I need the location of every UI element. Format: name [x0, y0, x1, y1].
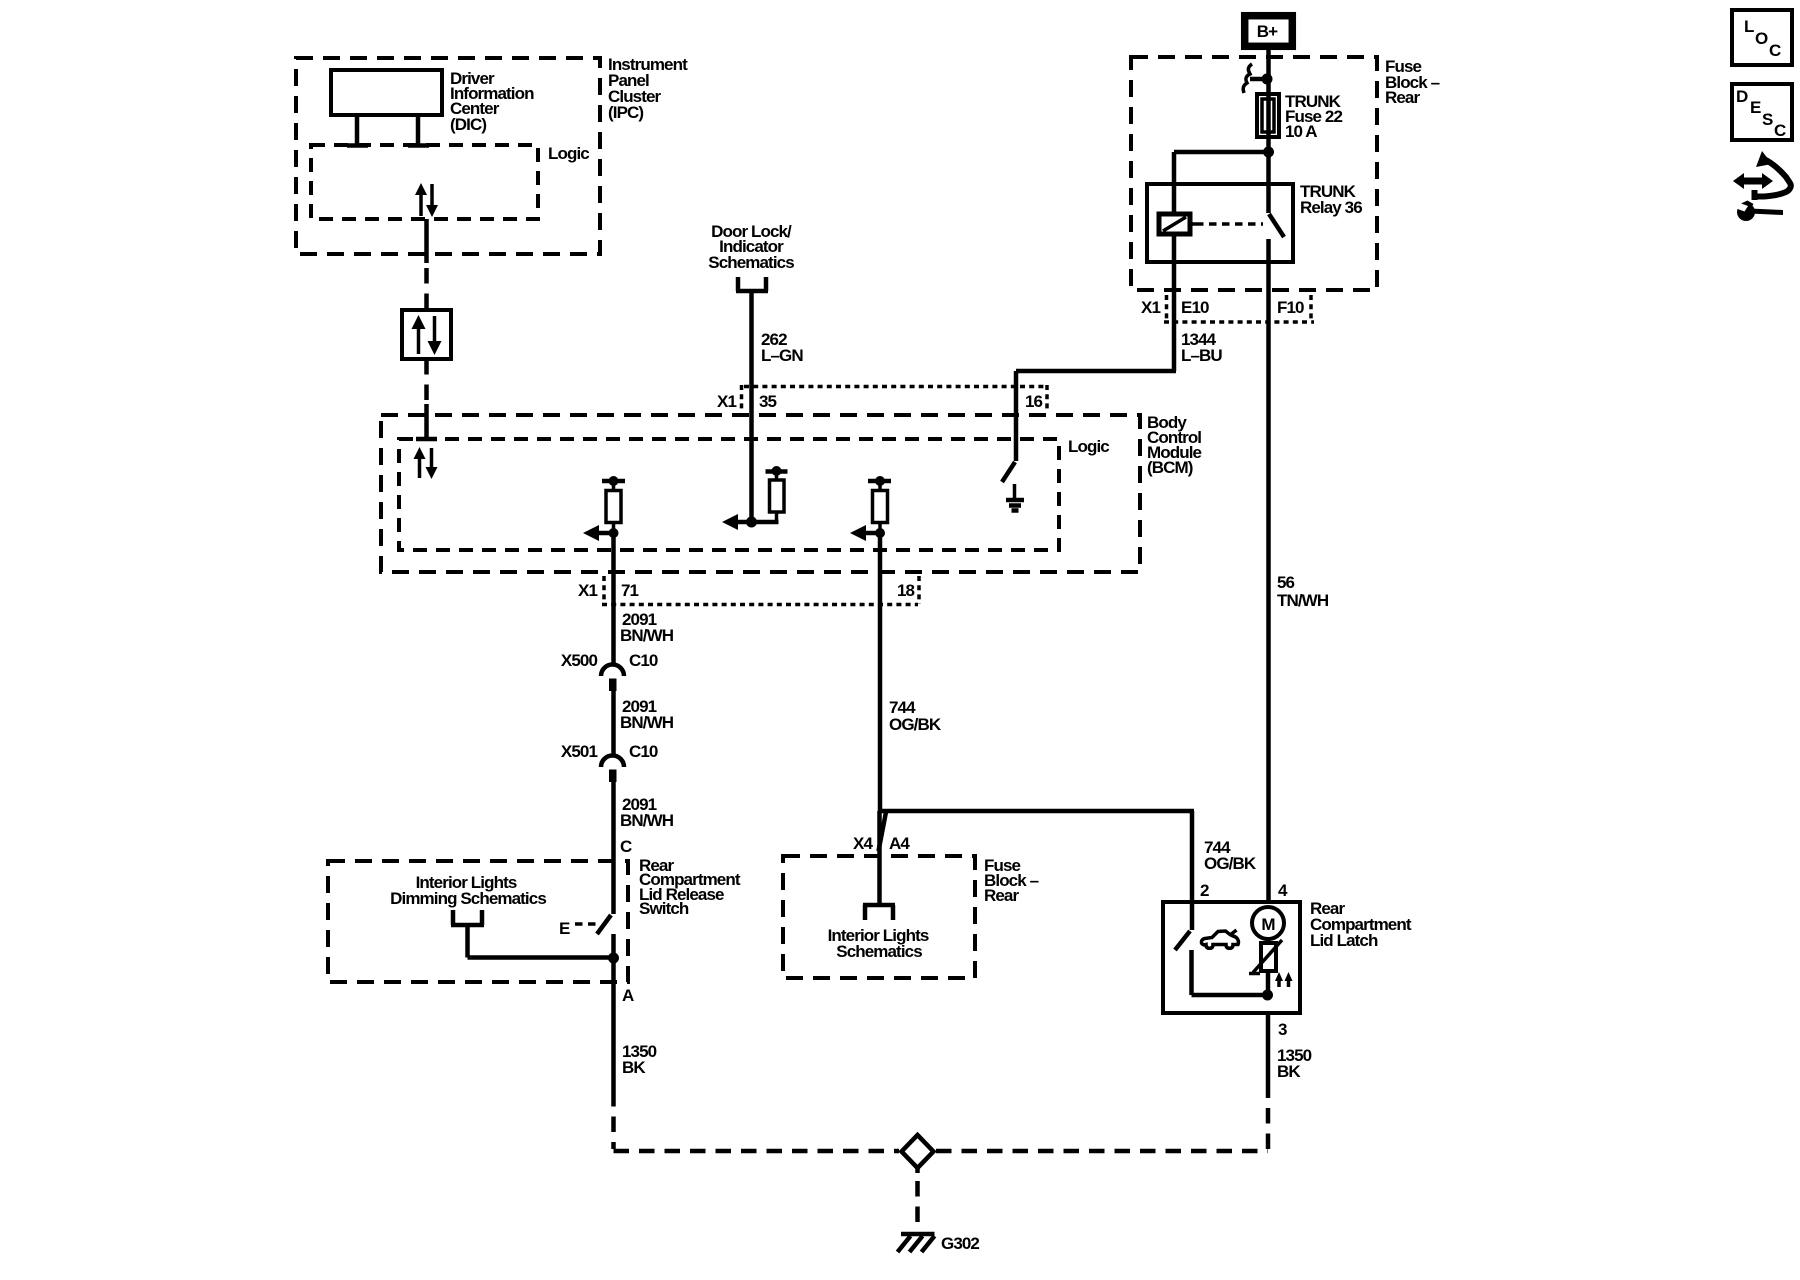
svg-text:71: 71 — [621, 581, 639, 600]
svg-text:E: E — [1750, 98, 1761, 117]
svg-text:Relay 36: Relay 36 — [1300, 198, 1362, 217]
svg-text:Logic: Logic — [548, 144, 589, 163]
svg-text:Schematics: Schematics — [708, 253, 794, 272]
svg-text:2: 2 — [1200, 881, 1209, 900]
svg-text:10 A: 10 A — [1285, 122, 1317, 141]
svg-text:D: D — [1736, 87, 1748, 106]
svg-text:56: 56 — [1277, 573, 1295, 592]
svg-text:(BCM): (BCM) — [1147, 458, 1193, 477]
svg-text:Switch: Switch — [639, 899, 689, 918]
svg-text:L–GN: L–GN — [761, 346, 803, 365]
svg-text:L–BU: L–BU — [1181, 346, 1222, 365]
svg-text:4: 4 — [1278, 881, 1288, 900]
svg-text:Logic: Logic — [1068, 437, 1109, 456]
svg-text:X1: X1 — [717, 392, 736, 411]
svg-text:E10: E10 — [1181, 298, 1209, 317]
svg-text:TN/WH: TN/WH — [1277, 591, 1329, 610]
svg-text:O: O — [1755, 29, 1768, 48]
svg-text:BN/WH: BN/WH — [620, 713, 674, 732]
svg-text:G302: G302 — [941, 1234, 979, 1253]
svg-text:3: 3 — [1278, 1020, 1287, 1039]
svg-text:C10: C10 — [629, 742, 658, 761]
svg-text:X4: X4 — [853, 834, 873, 853]
svg-text:X1: X1 — [1141, 298, 1160, 317]
svg-text:B+: B+ — [1257, 22, 1278, 41]
svg-text:(DIC): (DIC) — [450, 115, 486, 134]
svg-text:BK: BK — [622, 1058, 646, 1077]
svg-text:18: 18 — [897, 581, 915, 600]
svg-text:S: S — [1762, 110, 1773, 129]
svg-text:C: C — [1774, 121, 1786, 140]
svg-text:L: L — [1744, 17, 1754, 36]
svg-text:M: M — [1261, 915, 1275, 934]
svg-text:E: E — [559, 919, 570, 938]
svg-text:Rear: Rear — [984, 886, 1019, 905]
svg-text:C: C — [1769, 41, 1781, 60]
svg-text:C: C — [620, 837, 632, 856]
svg-text:BN/WH: BN/WH — [620, 626, 674, 645]
svg-text:X501: X501 — [561, 742, 598, 761]
svg-text:Lid Latch: Lid Latch — [1310, 931, 1378, 950]
svg-text:A: A — [622, 986, 634, 1005]
svg-text:C10: C10 — [629, 651, 658, 670]
svg-text:Dimming Schematics: Dimming Schematics — [390, 889, 546, 908]
svg-text:F10: F10 — [1277, 298, 1304, 317]
svg-text:(IPC): (IPC) — [608, 103, 643, 122]
svg-text:OG/BK: OG/BK — [889, 715, 942, 734]
svg-text:35: 35 — [759, 392, 777, 411]
svg-text:Schematics: Schematics — [836, 942, 922, 961]
svg-text:Rear: Rear — [1385, 88, 1420, 107]
svg-text:16: 16 — [1025, 392, 1043, 411]
svg-text:OG/BK: OG/BK — [1204, 854, 1257, 873]
svg-text:X1: X1 — [578, 581, 597, 600]
svg-text:A4: A4 — [889, 834, 910, 853]
svg-text:BN/WH: BN/WH — [620, 811, 674, 830]
svg-text:BK: BK — [1277, 1062, 1301, 1081]
svg-text:X500: X500 — [561, 651, 598, 670]
